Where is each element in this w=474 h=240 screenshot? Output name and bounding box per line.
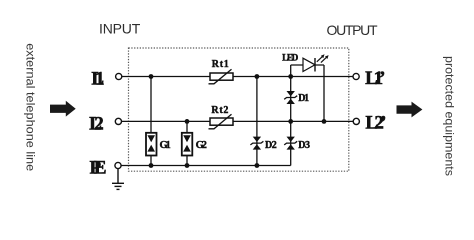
svg-text:D3: D3 [298,140,310,151]
svg-text:D1: D1 [298,93,309,104]
svg-text:L1’: L1’ [365,68,385,89]
svg-text:L2: L2 [89,114,104,135]
svg-text:INPUT: INPUT [99,20,141,36]
svg-text:protected equipments: protected equipments [442,56,456,176]
svg-text:PE: PE [90,158,107,179]
svg-text:LED: LED [282,53,299,63]
svg-text:external telephone line: external telephone line [23,43,37,171]
svg-text:G1: G1 [160,140,171,151]
svg-text:Rt2: Rt2 [211,105,228,116]
svg-text:Rt1: Rt1 [212,59,229,70]
svg-text:OUTPUT: OUTPUT [327,22,378,38]
svg-text:D2: D2 [265,140,277,151]
svg-text:G2: G2 [196,140,207,151]
svg-text:L2’: L2’ [365,113,386,134]
svg-text:L1: L1 [91,69,104,90]
